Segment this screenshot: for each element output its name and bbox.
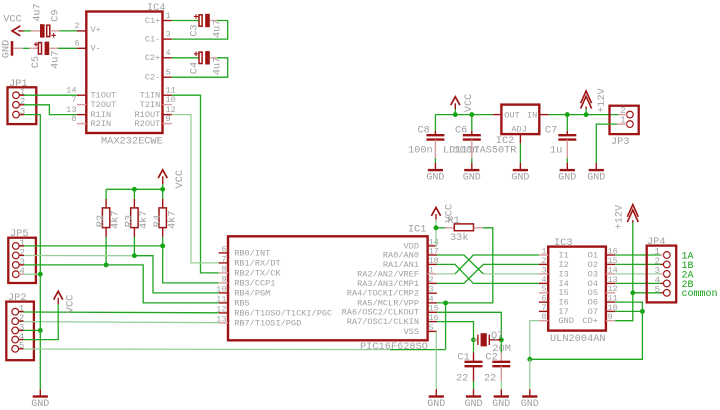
pin 1 I1 — [539, 254, 548, 256]
power symbol VCC (resistor rail) — [158, 170, 167, 178]
svg-text:2: 2 — [429, 275, 434, 285]
svg-text:GND: GND — [559, 316, 574, 326]
pin stub IN — [539, 114, 548, 116]
svg-text:5: 5 — [429, 323, 434, 333]
wire O3 to JP4.3 — [615, 273, 660, 275]
svg-text:7: 7 — [221, 254, 226, 264]
connector JP4 — [647, 246, 677, 303]
svg-text:O3: O3 — [588, 269, 598, 279]
pin 14 O3 — [606, 273, 615, 275]
wire GND net vertical — [39, 274, 41, 389]
svg-text:RB2/TX/CK: RB2/TX/CK — [234, 268, 281, 278]
svg-text:GND: GND — [558, 173, 576, 184]
pin 9 RB3/CCP1 — [219, 282, 228, 284]
svg-text:GND: GND — [426, 173, 444, 184]
svg-text:RB0/INT: RB0/INT — [234, 248, 270, 258]
ground (C7) — [566, 163, 568, 170]
capacitor C7 1u — [566, 115, 568, 131]
pin 2 stub V+ — [77, 30, 86, 32]
svg-text:R2: R2 — [95, 215, 107, 227]
wire OUT rail — [435, 114, 493, 116]
pin 17 RA0/AN0 — [428, 254, 437, 256]
svg-text:CD+: CD+ — [583, 316, 598, 326]
capacitor C1 22 — [473, 340, 475, 353]
svg-text:8: 8 — [541, 312, 546, 322]
svg-text:4u7: 4u7 — [212, 57, 224, 76]
svg-text:IC1: IC1 — [408, 224, 427, 236]
svg-text:RB6/T1OSO/T1CKI/PGC: RB6/T1OSO/T1CKI/PGC — [234, 308, 332, 318]
pin 6 RB0/INT — [219, 252, 228, 254]
pin 14 stub T1OUT — [77, 94, 86, 96]
wire JP2.3 to GND net — [24, 329, 41, 331]
power symbol VCC (to C9) — [12, 26, 20, 36]
wire JP1.2 to R1IN — [24, 105, 77, 115]
svg-text:RA3/AN3/CMP1: RA3/AN3/CMP1 — [357, 279, 419, 289]
pin JP4.4 — [663, 280, 670, 287]
pin JP4.3 — [663, 271, 670, 278]
svg-text:RB1/RX/DT: RB1/RX/DT — [234, 258, 280, 268]
pin 7 I7 — [539, 310, 548, 312]
crystal Q7 20M — [471, 337, 476, 342]
svg-text:7: 7 — [71, 95, 76, 105]
svg-text:I2: I2 — [559, 260, 569, 270]
ground (C2) — [500, 389, 502, 396]
svg-text:OUT: OUT — [504, 110, 519, 120]
svg-text:C7: C7 — [545, 124, 557, 136]
svg-text:GND: GND — [463, 173, 481, 184]
capacitor C2 22 — [500, 340, 502, 353]
op-amp IC1 PIC16F628SO box — [228, 236, 428, 340]
capacitor C8 100n — [434, 115, 436, 131]
pin 7 RB1/RX/DT — [219, 262, 228, 264]
svg-text:C1: C1 — [457, 352, 469, 364]
wire VDD — [435, 228, 438, 246]
ground (C1) — [473, 389, 475, 396]
ground (C6) — [471, 163, 473, 170]
svg-text:4k7: 4k7 — [166, 210, 178, 229]
regulator IC2 LD1117AS50TR box — [501, 105, 539, 135]
pin 12 O5 — [606, 292, 615, 294]
wire R3 bottom — [133, 237, 135, 256]
svg-text:8: 8 — [221, 264, 226, 274]
svg-text:GND: GND — [492, 399, 510, 410]
svg-text:4: 4 — [166, 48, 171, 58]
svg-text:VCC: VCC — [3, 14, 22, 26]
svg-text:C2: C2 — [485, 352, 497, 364]
pin 13 O4 — [606, 282, 615, 284]
pin 9 stub R2OUT — [163, 123, 172, 125]
svg-text:2: 2 — [74, 21, 79, 31]
pin 6 stub V- — [77, 47, 86, 49]
pin 11 O6 — [606, 301, 615, 303]
svg-text:RB3/CCP1: RB3/CCP1 — [234, 278, 275, 288]
ground (C8) — [434, 163, 436, 170]
svg-text:IC4: IC4 — [147, 2, 166, 14]
svg-text:RB5: RB5 — [234, 298, 249, 308]
svg-text:V-: V- — [91, 44, 101, 54]
resistor R2 4k7 — [105, 189, 107, 199]
svg-text:VCC: VCC — [174, 170, 186, 189]
svg-text:1: 1 — [166, 11, 171, 21]
svg-text:VCC: VCC — [463, 94, 475, 113]
svg-text:6: 6 — [221, 244, 226, 254]
svg-text:I3: I3 — [559, 269, 569, 279]
svg-text:11: 11 — [216, 294, 226, 304]
wire JP2.5 to MCLR net — [24, 348, 391, 351]
svg-text:O2: O2 — [588, 260, 598, 270]
svg-text:22: 22 — [484, 373, 496, 385]
wire R1 to MCLR — [437, 228, 493, 303]
svg-text:R1: R1 — [448, 215, 460, 227]
svg-text:12: 12 — [216, 304, 226, 314]
wire C3 to C1- — [172, 21, 228, 40]
ground (ULN) — [529, 389, 531, 396]
wire JP3.1 to GND — [617, 123, 627, 125]
svg-text:IC3: IC3 — [554, 237, 573, 249]
svg-text:+12V: +12V — [614, 204, 626, 230]
wire JP5.1 to R4 and RB3 — [24, 245, 163, 247]
connector JP3 — [610, 106, 639, 134]
power symbol +12V (regulator) — [581, 91, 592, 103]
resistor R4 4k7 — [162, 189, 164, 199]
pin 11 stub T1IN — [163, 94, 172, 96]
pin 3 RA4/TOCKI/CMP2 — [428, 292, 437, 294]
svg-text:RA4/TOCKI/CMP2: RA4/TOCKI/CMP2 — [347, 289, 419, 299]
pin 16 O1 — [606, 254, 615, 256]
wire GND to C5 — [23, 47, 30, 49]
svg-text:5: 5 — [654, 284, 660, 295]
svg-text:9: 9 — [166, 114, 171, 124]
svg-text:RB4/PGM: RB4/PGM — [234, 288, 270, 298]
svg-text:C4: C4 — [189, 62, 201, 74]
junction rail R4 — [160, 187, 165, 192]
ground (VSS) — [435, 389, 437, 396]
svg-text:VSS: VSS — [404, 327, 419, 337]
connector JP5 — [8, 238, 36, 283]
svg-text:10: 10 — [216, 284, 226, 294]
svg-text:9: 9 — [221, 274, 226, 284]
wire JP1.3 to GND net — [24, 115, 40, 275]
pin 8 stub R2IN — [77, 123, 86, 125]
svg-text:common: common — [682, 289, 718, 300]
pin 18 RA1/AN1 — [428, 263, 437, 265]
power symbol VCC (VDD) — [431, 208, 440, 216]
pin 3 I3 — [539, 273, 548, 275]
wire RA1 to I4 — [437, 264, 539, 283]
svg-text:R2OUT: R2OUT — [135, 119, 161, 129]
svg-text:3: 3 — [429, 285, 434, 295]
svg-text:4k7: 4k7 — [110, 210, 122, 229]
pin 10 stub T2IN — [163, 104, 172, 106]
wire RA3 to I2 — [437, 264, 539, 283]
pin 14 VDD — [428, 245, 437, 247]
wire VSS to GND — [435, 331, 437, 389]
svg-text:C3: C3 — [189, 24, 201, 36]
svg-text:4u7: 4u7 — [212, 19, 224, 38]
wire VCC rail — [106, 188, 163, 190]
pin 10 RB4/PGM — [219, 292, 228, 294]
svg-text:9: 9 — [608, 312, 613, 322]
pin JP4.5 — [663, 289, 670, 296]
wire +12V to CD+ — [632, 223, 634, 293]
svg-text:R2IN: R2IN — [91, 119, 112, 129]
pin 7 stub T2OUT — [77, 104, 86, 106]
wire R4 bottom — [162, 237, 164, 246]
pin 15 O2 — [606, 263, 615, 265]
svg-text:C1-: C1- — [145, 35, 160, 45]
svg-text:10: 10 — [166, 95, 176, 105]
svg-text:MAX232ECWE: MAX232ECWE — [101, 136, 163, 148]
svg-text:ADJ: ADJ — [511, 125, 526, 135]
svg-text:RA2/AN2/VREF: RA2/AN2/VREF — [357, 269, 419, 279]
svg-text:PIC16F628SO: PIC16F628SO — [360, 341, 428, 353]
svg-text:4u7: 4u7 — [49, 50, 61, 69]
wire R2 bottom — [105, 237, 107, 265]
svg-text:JP3: JP3 — [611, 136, 630, 148]
svg-text:3: 3 — [541, 265, 546, 275]
wire RA6 to crystal — [437, 312, 501, 340]
pin 8 RB2/TX/CK — [219, 272, 228, 274]
svg-text:RB7/T1OSI/PGD: RB7/T1OSI/PGD — [234, 318, 301, 328]
wire VCC to JP2.4 — [24, 304, 59, 340]
svg-text:VCC: VCC — [65, 295, 77, 314]
connector JP1 — [8, 87, 37, 124]
svg-text:T2OUT: T2OUT — [91, 100, 117, 110]
svg-text:GND: GND — [587, 173, 605, 184]
capacitor C4 4u7 — [199, 52, 202, 63]
wire R1OUT to RB1 — [172, 115, 191, 263]
svg-text:RA7/OSC1/CLKIN: RA7/OSC1/CLKIN — [347, 317, 419, 327]
op-amp IC3 ULN2004AN box — [548, 247, 606, 331]
pin 12 stub R1OUT — [163, 114, 172, 116]
svg-text:C1+: C1+ — [145, 16, 160, 26]
svg-text:4: 4 — [19, 266, 25, 277]
wire C4 to C2- — [172, 58, 228, 77]
pin 15 RA6/OSC2/CLKOUT — [428, 311, 437, 313]
wire C1+ loop — [172, 20, 199, 22]
pin 11 RB5 — [219, 302, 228, 304]
wire C2+ loop — [172, 57, 199, 59]
pin 1 RA2/AN2/VREF — [428, 273, 437, 275]
wire ADJ to GND — [519, 134, 521, 143]
svg-text:1: 1 — [429, 265, 434, 275]
ground (JP2.3 net) — [39, 389, 41, 396]
svg-text:3: 3 — [20, 106, 26, 117]
wire JP2.1 to RB6 — [24, 311, 219, 314]
svg-text:GND: GND — [521, 399, 539, 410]
svg-text:100n: 100n — [408, 145, 433, 157]
power symbol VCC (regulator) — [451, 97, 460, 105]
svg-text:5: 5 — [166, 68, 171, 78]
svg-text:GND: GND — [427, 399, 445, 410]
pin 4 RA5/MCLR/VPP — [428, 302, 437, 304]
pin 2 RA3/AN3/CMP1 — [428, 282, 437, 284]
pin 2 I2 — [539, 263, 548, 265]
svg-text:2: 2 — [541, 256, 546, 266]
ground (ADJ) — [519, 163, 521, 170]
power symbol VCC (JP2.4) — [54, 291, 63, 299]
svg-text:R3: R3 — [124, 215, 136, 227]
svg-text:ULN2004AN: ULN2004AN — [550, 333, 606, 345]
wire RA2 to I1 — [437, 273, 455, 275]
svg-text:C2-: C2- — [145, 73, 160, 83]
svg-text:13: 13 — [216, 314, 226, 324]
svg-text:RA1/AN1: RA1/AN1 — [383, 260, 419, 270]
svg-text:V+: V+ — [91, 25, 101, 35]
wire O2 to JP4.2 — [615, 263, 660, 265]
pin 5 VSS — [428, 330, 437, 332]
wire JP2.2 to RB7 — [24, 322, 219, 323]
pin stub OUT — [493, 114, 501, 116]
pin 8 GND — [539, 320, 548, 322]
svg-text:IN: IN — [527, 110, 537, 120]
power symbol +12V (JP4) — [627, 205, 638, 217]
junction MCLR — [443, 300, 448, 305]
pin 9 CD+ — [606, 320, 615, 322]
svg-text:C9: C9 — [50, 9, 62, 21]
svg-text:8: 8 — [71, 114, 76, 124]
wire RA7 to crystal — [437, 322, 474, 340]
svg-text:6: 6 — [74, 39, 79, 49]
capacitor C3 4u7 — [199, 15, 202, 26]
svg-text:5: 5 — [19, 340, 25, 351]
pin JP4.1 — [663, 252, 670, 259]
wire ULN GND pin to GND — [530, 321, 539, 360]
pin 3 stub C1- — [163, 38, 172, 40]
pin 4 I4 — [539, 282, 548, 284]
pin 16 RA7/OSC1/CLKIN — [428, 321, 437, 323]
wire JP5.4 to GND net — [24, 273, 40, 275]
wire O4 to JP4.4 — [615, 282, 660, 284]
wire VCC to C9 — [24, 30, 31, 32]
svg-text:1u: 1u — [550, 145, 562, 157]
wire T1IN to RB2 — [172, 95, 219, 273]
svg-text:GND: GND — [1, 40, 13, 59]
svg-text:22: 22 — [456, 373, 468, 385]
connector JP2 — [6, 302, 34, 361]
pin stub JP3.2 — [618, 114, 627, 116]
pin 13 stub R1IN — [77, 114, 86, 116]
wire O6 O7 to GND — [615, 302, 642, 311]
svg-text:100n: 100n — [454, 145, 479, 157]
wire JP5.2 to R3 and RB4 — [24, 255, 134, 257]
wire IN rail — [549, 114, 618, 116]
pin 12 RB6/T1OSO/T1CKI/PGC — [219, 312, 228, 314]
svg-text:GND: GND — [464, 399, 482, 410]
ground symbol GND (to C5) — [11, 41, 14, 56]
pin 10 O7 — [606, 310, 615, 312]
wire C9 to IC4 V+ — [60, 30, 78, 32]
wire C5 to IC4 V- — [58, 47, 77, 49]
junction rail R3 — [132, 187, 137, 192]
ground (JP3) — [595, 163, 597, 170]
pin 1 stub C1+ — [163, 20, 172, 22]
svg-text:T2IN: T2IN — [140, 100, 161, 110]
svg-text:C2+: C2+ — [145, 53, 160, 63]
svg-text:C5: C5 — [30, 56, 42, 68]
svg-text:R4: R4 — [152, 215, 164, 227]
pin 13 RB7/T1OSI/PGD — [219, 322, 228, 324]
wire JP5.3 to R2 and RB5 — [24, 264, 106, 266]
capacitor C5 4u7 — [29, 47, 39, 49]
resistor R1 33k — [436, 227, 445, 229]
svg-text:3: 3 — [166, 29, 171, 39]
svg-text:33k: 33k — [450, 232, 469, 244]
capacitor C9 4u7 — [31, 30, 40, 32]
op-amp IC4 MAX232ECWE box — [86, 12, 162, 134]
svg-text:4k7: 4k7 — [138, 210, 150, 229]
capacitor C6 100n — [471, 115, 473, 131]
svg-text:4u7: 4u7 — [31, 3, 43, 22]
wire O1 to JP4.1 — [615, 254, 660, 256]
svg-text:GND: GND — [31, 399, 49, 410]
svg-text:+12V: +12V — [596, 87, 608, 113]
pin 5 I5 — [539, 292, 548, 294]
pin 6 I6 — [539, 301, 548, 303]
svg-text:C6: C6 — [455, 124, 467, 136]
resistor R3 4k7 — [133, 189, 135, 199]
pin 5 stub C2- — [163, 76, 172, 78]
svg-text:C8: C8 — [418, 124, 430, 136]
wire RA0 to I3 — [437, 255, 483, 274]
svg-text:GND: GND — [511, 173, 529, 184]
wire JP1.1 to T1OUT — [24, 94, 77, 96]
pin JP4.2 — [663, 261, 670, 268]
pin 4 stub C2+ — [163, 57, 172, 59]
